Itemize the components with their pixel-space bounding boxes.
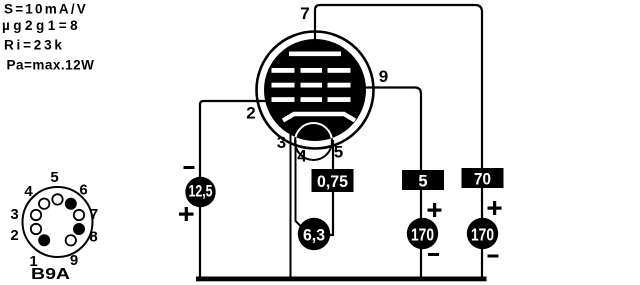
polarity minus of 12,5 — [184, 166, 195, 169]
wire pin5 heater run upper — [332, 140, 334, 170]
svg-text:9: 9 — [379, 67, 388, 86]
svg-text:4: 4 — [24, 183, 33, 200]
tube V1 envelope — [257, 32, 374, 149]
svg-text:2: 2 — [246, 104, 255, 123]
grid g3 row — [272, 68, 351, 73]
svg-text:7: 7 — [300, 4, 309, 23]
base pin 3 — [31, 210, 41, 220]
base pin 6 — [65, 198, 77, 210]
svg-text:3: 3 — [10, 206, 18, 223]
meter V 12,5 — [185, 177, 215, 207]
meter mA 70 — [462, 168, 504, 189]
heater — [295, 123, 332, 160]
cathode — [283, 114, 355, 121]
polarity plus of 170 anode — [488, 201, 502, 215]
svg-text:B9A: B9A — [31, 266, 71, 283]
polarity minus of 170 anode — [488, 255, 499, 258]
base pin 7 — [74, 210, 84, 220]
svg-text:6: 6 — [79, 182, 87, 199]
grid g1 row — [272, 97, 351, 102]
base pin 5 — [52, 194, 62, 204]
svg-text:2: 2 — [10, 227, 18, 244]
meter V 6,3 — [298, 218, 330, 250]
svg-text:70: 70 — [474, 171, 491, 189]
svg-text:170: 170 — [471, 225, 494, 245]
svg-text:Ri=23k: Ri=23k — [4, 38, 65, 53]
meter V 170 screen — [407, 218, 438, 249]
svg-text:5: 5 — [50, 169, 58, 186]
base pin 1 — [38, 234, 50, 246]
wire anode to meter — [481, 188, 483, 219]
polarity minus of 170 screen — [428, 253, 439, 256]
svg-text:Pa=max.12W: Pa=max.12W — [7, 58, 95, 73]
svg-text:12,5: 12,5 — [189, 183, 213, 201]
svg-text:9: 9 — [70, 252, 78, 269]
anode plate — [289, 52, 341, 57]
base pin 4 — [39, 199, 49, 209]
wire pin9 screen run — [351, 88, 421, 171]
wire meter 170 screen to ground rail — [420, 249, 422, 280]
wire pin3 cathode run — [290, 118, 292, 279]
wire screen to meter — [420, 190, 422, 219]
B9A base outline — [23, 187, 93, 257]
meter V 170 anode — [467, 218, 498, 249]
wire pin5 heater run lower — [329, 191, 333, 235]
ground rail — [196, 277, 487, 282]
wire pin2 grid run — [200, 101, 274, 277]
polarity plus of 170 screen — [428, 203, 442, 217]
svg-text:5: 5 — [418, 173, 427, 191]
meter mA 5 — [402, 170, 444, 191]
wire meter 170 anode to ground rail — [481, 249, 483, 280]
svg-text:S=10mA/V: S=10mA/V — [4, 2, 88, 17]
grid g2 row — [272, 83, 351, 88]
base pin 8 — [73, 223, 85, 235]
polarity plus of 12,5 — [179, 207, 194, 221]
svg-text:170: 170 — [411, 225, 434, 245]
base pin 2 — [31, 224, 41, 234]
base pin 9 — [66, 235, 76, 245]
meter A 0,75 — [312, 169, 354, 192]
svg-text:6,3: 6,3 — [303, 227, 325, 245]
svg-text:8: 8 — [89, 229, 97, 246]
wire pin4 heater run — [296, 140, 302, 227]
svg-text:µg2g1=8: µg2g1=8 — [2, 18, 81, 33]
svg-text:0,75: 0,75 — [317, 173, 348, 191]
wire pin7 anode supply top run — [315, 5, 482, 170]
svg-text:7: 7 — [90, 206, 98, 223]
